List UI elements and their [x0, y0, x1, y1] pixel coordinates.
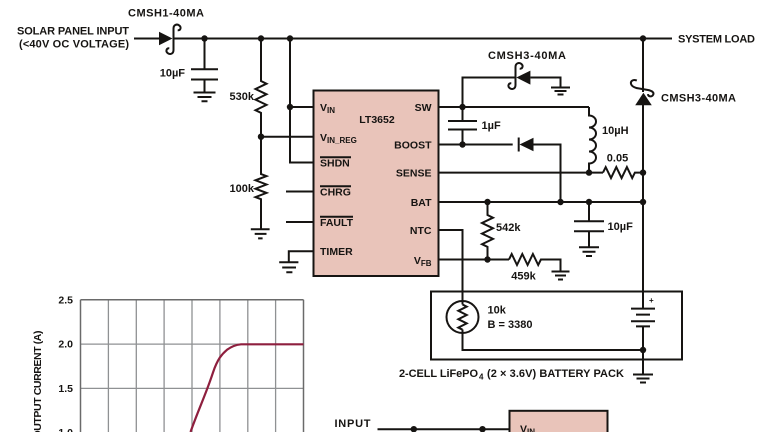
chart curve output current	[191, 344, 304, 432]
wire right rail upper	[642, 39, 644, 93]
node VIN_REG divider junction	[258, 134, 264, 140]
svg-text:100k: 100k	[230, 183, 255, 195]
svg-text:4: 4	[479, 373, 484, 382]
ground battery	[633, 375, 653, 383]
wire CHRG stub	[286, 191, 314, 193]
svg-text:SENSE: SENSE	[396, 168, 432, 180]
inductor L1 10uH	[589, 107, 629, 173]
svg-text:10µF: 10µF	[608, 221, 634, 233]
wire VIN drop and SHDN	[290, 39, 314, 163]
svg-text:FAULT: FAULT	[320, 217, 354, 229]
capacitor C3 10uF battery	[574, 202, 633, 247]
svg-text:NTC: NTC	[410, 225, 432, 237]
svg-text:BAT: BAT	[411, 197, 432, 209]
wire input second circuit	[378, 428, 510, 430]
wire input to diode D1	[134, 38, 159, 40]
wire right rail lower	[642, 105, 644, 309]
diode D2 CMSH3-40MA clamp	[488, 50, 566, 89]
svg-text:2-CELL LiFePO: 2-CELL LiFePO	[399, 368, 478, 380]
battery BT1	[631, 296, 655, 350]
ground R2	[251, 229, 270, 238]
svg-text:+: +	[649, 296, 654, 305]
svg-text:SHDN: SHDN	[320, 158, 350, 170]
node VFB dot	[484, 256, 490, 262]
svg-text:(<40V OC VOLTAGE): (<40V OC VOLTAGE)	[19, 39, 129, 51]
wire BOOST	[439, 144, 513, 146]
chart y tick labels	[58, 294, 73, 432]
chart grid	[81, 300, 304, 432]
svg-text:10µH: 10µH	[602, 125, 629, 137]
resistor R1 530k	[230, 39, 267, 137]
battery pack box	[431, 292, 682, 360]
svg-text:2.5: 2.5	[58, 294, 73, 306]
wire BAT	[439, 201, 644, 203]
chart border	[81, 300, 304, 432]
svg-text:(2 × 3.6V) BATTERY PACK: (2 × 3.6V) BATTERY PACK	[487, 368, 624, 380]
svg-text:BOOST: BOOST	[394, 140, 432, 152]
wire SW clamp branch	[463, 78, 516, 108]
node SYSTEM LOAD	[643, 34, 755, 46]
svg-text:10µF: 10µF	[160, 68, 186, 80]
wire thermistor to battery minus	[463, 330, 644, 351]
svg-text:459k: 459k	[511, 271, 536, 283]
wire VIN_REG	[261, 136, 314, 138]
ground C1	[194, 93, 216, 102]
resistor R5 459k	[509, 254, 561, 283]
node SENSE/inductor dot	[586, 169, 592, 175]
diode D4 CMSH3-40MA output	[631, 80, 736, 105]
node VIN dot	[287, 104, 293, 110]
node rail junction dots	[201, 35, 207, 41]
svg-text:TIMER: TIMER	[320, 246, 353, 258]
svg-text:CMSH3-40MA: CMSH3-40MA	[488, 50, 566, 62]
capacitor C2 1uF	[448, 107, 501, 145]
svg-text:INPUT: INPUT	[335, 418, 371, 430]
svg-text:530k: 530k	[230, 91, 255, 103]
svg-text:10k: 10k	[488, 305, 507, 317]
svg-text:B = 3380: B = 3380	[488, 319, 533, 331]
node BOOST dot	[459, 141, 465, 147]
svg-text:SW: SW	[415, 102, 432, 114]
IC U2 (partial, second circuit)	[510, 411, 608, 432]
ground TIMER	[279, 262, 298, 272]
node SW dot	[459, 104, 465, 110]
svg-text:2.0: 2.0	[58, 339, 73, 351]
svg-text:SOLAR PANEL INPUT: SOLAR PANEL INPUT	[17, 26, 129, 38]
IC U1 LT3652	[314, 91, 439, 277]
svg-text:CMSH1-40MA: CMSH1-40MA	[128, 8, 204, 20]
diode D3 boost	[519, 138, 561, 203]
capacitor C1 10uF input	[160, 39, 218, 93]
svg-text:CMSH3-40MA: CMSH3-40MA	[661, 93, 736, 105]
svg-text:1.5: 1.5	[58, 383, 73, 395]
ground R5	[552, 272, 570, 280]
node SOLAR PANEL INPUT label	[17, 26, 129, 51]
resistor R2 100k	[230, 137, 267, 229]
node sense-out dot	[640, 169, 646, 175]
ground C3	[579, 247, 599, 256]
wire NTC	[439, 230, 463, 305]
svg-text:SYSTEM LOAD: SYSTEM LOAD	[678, 34, 755, 46]
svg-text:0.05: 0.05	[607, 153, 628, 165]
diode D1 CMSH1-40MA	[128, 8, 204, 55]
svg-text:OUTPUT CURRENT (A): OUTPUT CURRENT (A)	[32, 331, 44, 432]
node battery minus dot	[640, 347, 646, 353]
wire VFB	[439, 259, 510, 261]
svg-text:LT3652: LT3652	[359, 114, 395, 126]
svg-text:1.0: 1.0	[58, 427, 73, 432]
svg-text:CHRG: CHRG	[320, 187, 351, 199]
resistor R4 542k	[482, 202, 521, 260]
ground D2	[551, 88, 570, 95]
wire top rail	[173, 38, 643, 40]
wire battery to ground	[642, 350, 644, 374]
resistor R3 0.05	[603, 153, 643, 179]
thermistor RT 10k	[447, 301, 533, 333]
svg-text:542k: 542k	[496, 222, 521, 234]
wire SENSE	[439, 172, 604, 174]
wire TIMER to ground	[289, 251, 314, 261]
svg-text:1µF: 1µF	[482, 120, 501, 132]
wire SW to inductor	[439, 106, 590, 108]
wire FAULT stub	[286, 221, 314, 223]
